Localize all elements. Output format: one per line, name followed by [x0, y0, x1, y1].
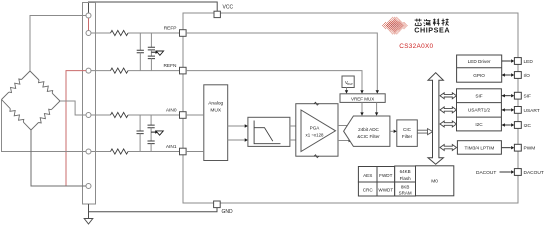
SIF pin [514, 92, 521, 99]
svg-text:GPIO: GPIO [473, 73, 485, 78]
Analog MUX block [204, 85, 228, 161]
svg-text:I2C: I2C [475, 122, 483, 127]
GND pin [214, 201, 221, 208]
wire to SIF pin [502, 94, 515, 97]
REFN pin [180, 67, 187, 74]
svg-text:AES: AES [363, 173, 372, 178]
wire REFN to VREF MUX [186, 71, 364, 94]
CIC Filter block [397, 120, 418, 146]
DACOUT pin [514, 169, 521, 176]
svg-text:BGP: BGP [347, 82, 353, 86]
wire to I/O pin [502, 73, 515, 76]
REFN label [163, 63, 177, 69]
PGA block [296, 102, 338, 157]
svg-text:USART: USART [524, 108, 540, 114]
bus arrow to I2C [440, 121, 457, 127]
svg-text:64KB: 64KB [400, 169, 411, 174]
svg-text:CIC: CIC [403, 127, 412, 132]
svg-text:LED: LED [524, 59, 534, 65]
VCC pin [214, 11, 220, 17]
connector pin 2 [86, 31, 91, 36]
wire to DACOUT pin [500, 170, 515, 173]
AIN0 pin [180, 112, 187, 119]
logo text CHIPSEA [414, 26, 450, 35]
svg-text:DACOUT: DACOUT [476, 170, 496, 176]
svg-text:CHIPSEA: CHIPSEA [414, 26, 450, 35]
LED pin [514, 58, 521, 65]
resistor bridge R4 (bottom-right arm) [31, 101, 60, 130]
svg-text:GND: GND [222, 209, 234, 215]
svg-text:LED Driver: LED Driver [468, 59, 491, 64]
AES block [358, 167, 377, 183]
VCC label [223, 5, 234, 11]
wire REFP to VREF MUX [186, 33, 379, 94]
wire bridge bottom to pin6 [31, 130, 86, 186]
svg-text:AIN1: AIN1 [166, 144, 177, 150]
wire AIN1 row [91, 151, 180, 153]
svg-text:SIF: SIF [475, 94, 482, 99]
capacitor C4 (AIN0-AIN1 diff) [137, 115, 144, 152]
svg-text:REFN: REFN [163, 63, 177, 69]
capacitor C5 C6 chain (AIN0-gnd-AIN1) [148, 115, 155, 152]
I/O pin [514, 72, 521, 79]
svg-text:8KB: 8KB [401, 185, 410, 190]
connector pin 4 [86, 113, 91, 118]
resistor bridge R1 (top-left arm) [2, 71, 31, 100]
wire red link pin1-pin2 [88, 18, 90, 30]
24bit ADC block [344, 116, 390, 146]
wire bridge top to pin1 [30, 16, 86, 72]
svg-text:Analog: Analog [208, 101, 223, 107]
8KB SRAM block [395, 182, 416, 196]
signal ground arrow (ain caps midpoint) [151, 130, 163, 135]
signal ground arrow (ref caps midpoint) [151, 51, 163, 56]
wire to PWM pin [502, 146, 515, 149]
REFP pin [180, 30, 187, 37]
FWDT block [377, 167, 395, 183]
VREF MUX block [340, 94, 385, 103]
resistor R_REFP [111, 30, 129, 35]
resistor R_AIN1 [111, 149, 129, 154]
AIN1 pin [180, 148, 187, 155]
svg-text:CRC: CRC [363, 187, 374, 192]
logo text 芯海科技 [415, 19, 449, 26]
svg-text:DACOUT: DACOUT [524, 170, 544, 176]
svg-text:FWDT: FWDT [379, 173, 392, 178]
wire bridge right to pin4 (AIN0) [60, 101, 86, 115]
wire GND net [89, 208, 218, 212]
svg-text:CS32A0X0: CS32A0X0 [399, 43, 433, 50]
wire MUX out+ [228, 124, 248, 127]
svg-text:TIM3/4 LPTIM: TIM3/4 LPTIM [465, 145, 495, 150]
PWM pin [514, 144, 521, 151]
wire VREF MUX to ADC (right) [375, 102, 378, 115]
wire VREF MUX to ADC (left) [360, 102, 363, 115]
svg-text:VREF MUX: VREF MUX [351, 96, 374, 101]
bus arrow to TIM [440, 145, 457, 151]
LED Driver / GPIO block [457, 55, 502, 82]
REFP label [164, 26, 177, 32]
connector pin 3 [86, 68, 91, 73]
low-pass filter block [248, 117, 290, 146]
svg-text:&CIC Filter: &CIC Filter [357, 134, 380, 139]
svg-text:PWM: PWM [524, 146, 536, 152]
SIF / USART / I2C block [457, 89, 502, 131]
wire filter to PGA+ [290, 125, 296, 127]
DACOUT pin label [524, 170, 544, 176]
svg-text:SIF: SIF [524, 94, 532, 100]
wire CIC to bus (open arrow) [417, 129, 433, 135]
svg-text:M0: M0 [431, 179, 438, 185]
svg-text:WWDT: WWDT [378, 187, 393, 192]
connector pin 1 [86, 13, 91, 18]
resistor R_REFN [111, 68, 129, 73]
wire filter to PGA- [290, 139, 296, 141]
WWDT block [377, 182, 395, 196]
PGA amplifier triangle [301, 110, 336, 152]
capacitor C1 (REFP-REFN diff) [137, 33, 144, 71]
svg-text:VCC: VCC [223, 5, 234, 11]
bus arrow to USART [440, 107, 457, 113]
wire AIN0 to Analog MUX [186, 114, 204, 116]
PWM pin label [524, 146, 536, 152]
svg-text:USART1/2: USART1/2 [468, 108, 491, 113]
resistor bridge R2 (top-right arm) [30, 71, 60, 101]
svg-text:SRAM: SRAM [399, 191, 412, 196]
connector pin 6 [86, 184, 91, 189]
svg-text:x1 ~x128: x1 ~x128 [306, 133, 325, 138]
AIN0 label [166, 108, 177, 114]
CRC block [358, 182, 377, 196]
wire PGA to ADC+ [338, 124, 352, 127]
svg-text:24bit ADC: 24bit ADC [358, 127, 379, 132]
ground symbol [84, 204, 93, 224]
M0 core block [416, 166, 454, 196]
wire Vbgp to VREF MUX [345, 88, 348, 94]
connector J1 body [83, 3, 96, 205]
wire bridge left to pin5 (AIN1) [2, 100, 87, 152]
chip outline U1 CS32A0X0 [183, 13, 518, 203]
bus arrow to SIF [440, 93, 457, 99]
svg-text:PGA: PGA [310, 126, 321, 131]
svg-text:I/O: I/O [524, 73, 531, 79]
svg-text:AIN0: AIN0 [166, 108, 177, 114]
wire REFP row [91, 32, 180, 34]
svg-text:Filter: Filter [402, 134, 413, 139]
CHIPSEA logo mark [382, 17, 408, 35]
svg-text:MUX: MUX [210, 108, 221, 114]
wire REFN row [91, 70, 180, 72]
wire AIN0 row [91, 114, 180, 116]
wire VCC net [89, 2, 218, 13]
USART pin label [524, 108, 540, 114]
GND label [222, 209, 234, 215]
AIN1 label [166, 144, 177, 150]
capacitor C2 C3 chain (REFP-gnd-REFN) [148, 33, 155, 71]
64KB Flash block [395, 166, 416, 182]
SIF pin label [524, 94, 532, 100]
wire to USART pin [502, 108, 515, 111]
wire PGA to ADC- [338, 139, 352, 142]
wire MUX out- [228, 138, 248, 141]
system bus arrow (vertical) [428, 73, 443, 165]
I/O pin label [524, 73, 531, 79]
wire ADC to CIC [390, 130, 397, 133]
wire to LED pin [502, 59, 515, 62]
wire red REFN sense [66, 71, 86, 186]
I2C pin label [524, 123, 532, 129]
resistor bridge R3 (bottom-left arm) [2, 100, 32, 131]
svg-text:REFP: REFP [164, 26, 177, 32]
resistor R_AIN0 [111, 112, 129, 117]
I2C pin [514, 122, 521, 129]
Vbgp reference block [342, 76, 354, 88]
DACOUT internal label [476, 170, 496, 176]
part number CS32A0X0 [399, 43, 433, 50]
LED pin label [524, 59, 534, 65]
TIM3/4 LPTIM block [457, 141, 501, 155]
wire AIN1 to Analog MUX [186, 151, 204, 153]
svg-text:Flash: Flash [400, 176, 412, 181]
connector pin 5 [86, 149, 91, 154]
USART pin [514, 107, 521, 114]
wire to I2C pin [502, 123, 515, 126]
svg-text:I2C: I2C [524, 123, 532, 129]
